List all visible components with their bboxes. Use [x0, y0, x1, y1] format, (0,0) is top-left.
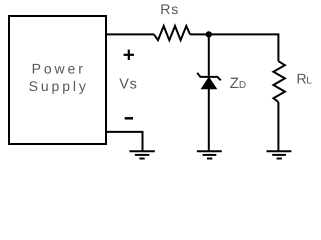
ground (zener)	[197, 151, 222, 158]
svg-text:L: L	[306, 76, 312, 87]
ground (RL)	[267, 151, 292, 158]
node A (junction dot)	[206, 31, 212, 37]
ground (supply return)	[129, 151, 154, 158]
− terminal marker	[125, 117, 133, 120]
label: Power Supply	[29, 61, 89, 94]
cathode bar with bent ends	[197, 73, 221, 80]
anode triangle	[202, 78, 217, 89]
zener diode ZD	[197, 73, 221, 89]
svg-text:Vs: Vs	[119, 76, 137, 92]
label ZD	[230, 75, 246, 92]
svg-text:D: D	[239, 80, 246, 91]
wire: node down to zener	[208, 34, 210, 76]
svg-text:Supply: Supply	[29, 78, 89, 94]
svg-text:Z: Z	[230, 75, 239, 92]
label Rs	[160, 1, 179, 17]
wire: RL to ground	[277, 102, 279, 151]
+ terminal marker	[124, 50, 134, 60]
svg-text:R: R	[297, 71, 307, 87]
resistor R2 (RL zigzag)	[273, 61, 285, 102]
wire: top rail, supply to Rs	[106, 33, 155, 35]
wire: Rs to node	[190, 33, 209, 35]
power supply box	[9, 16, 106, 144]
label RL	[297, 71, 313, 87]
wire: node to RL top	[209, 34, 279, 61]
wire: zener to ground	[208, 89, 210, 151]
label Vs	[119, 76, 137, 92]
svg-text:Rs: Rs	[160, 1, 179, 17]
wire: supply bottom to ground stub	[106, 132, 143, 151]
svg-text:Power: Power	[32, 61, 86, 77]
resistor R1 (Rs zigzag)	[154, 26, 190, 40]
